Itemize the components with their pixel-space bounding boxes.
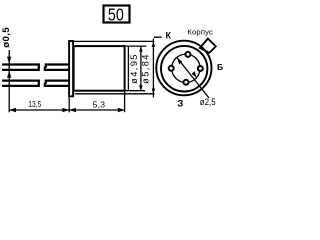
leader dash left of К [154,36,162,38]
dimension Ø2,5 diagonal [177,58,216,107]
svg-text:5,3: 5,3 [93,100,106,110]
bottom view: inner circle (Ø4,95) [161,46,207,92]
svg-text:З: З [177,99,183,110]
svg-text:Корпус: Корпус [187,28,213,37]
dimension Ø4,95 [129,46,143,90]
extension line right of body (5,3 reference) [127,46,129,91]
svg-text:ø5,84: ø5,84 [141,53,151,84]
bottom view: outer circle (case Ø5,84) [156,41,211,96]
key tab (Корпус) [200,39,216,53]
flange (side view, Ø5,84 disc) [69,41,73,96]
dimension Ø0,5 (lead diameter) [1,27,12,113]
svg-text:ø4,95: ø4,95 [129,53,139,84]
svg-text:ø2,5: ø2,5 [200,97,216,108]
lead 1 (upper lead, broken, side view) [2,63,69,71]
svg-text:50: 50 [108,6,124,25]
extension line inner bottom [126,90,145,92]
dimension line 13,5 / 5,3 [9,99,124,112]
dimension Ø5,84 [141,39,156,98]
pin circle (Ø2,5 centerline) [172,54,200,82]
extension line inner top [126,45,147,47]
extension line outer bottom [75,93,155,95]
pin (west) [169,66,174,71]
svg-text:Б: Б [217,62,223,72]
pin З (south) [184,80,189,85]
svg-text:13,5: 13,5 [28,99,41,109]
pin Б (east) [198,66,203,71]
figure number box 50 [104,6,130,25]
lead 2 (lower lead, broken, side view) [2,80,69,88]
svg-text:К: К [165,31,171,41]
extension from body right edge down to 5,3 [124,92,126,113]
pin К (north) [185,52,190,57]
extension line mid (flange face, between 13,5 and 5,3) [68,97,70,112]
can body (side view, Ø4,95) [74,46,125,91]
svg-text:ø0,5: ø0,5 [1,27,12,48]
extension line outer top [73,40,154,42]
